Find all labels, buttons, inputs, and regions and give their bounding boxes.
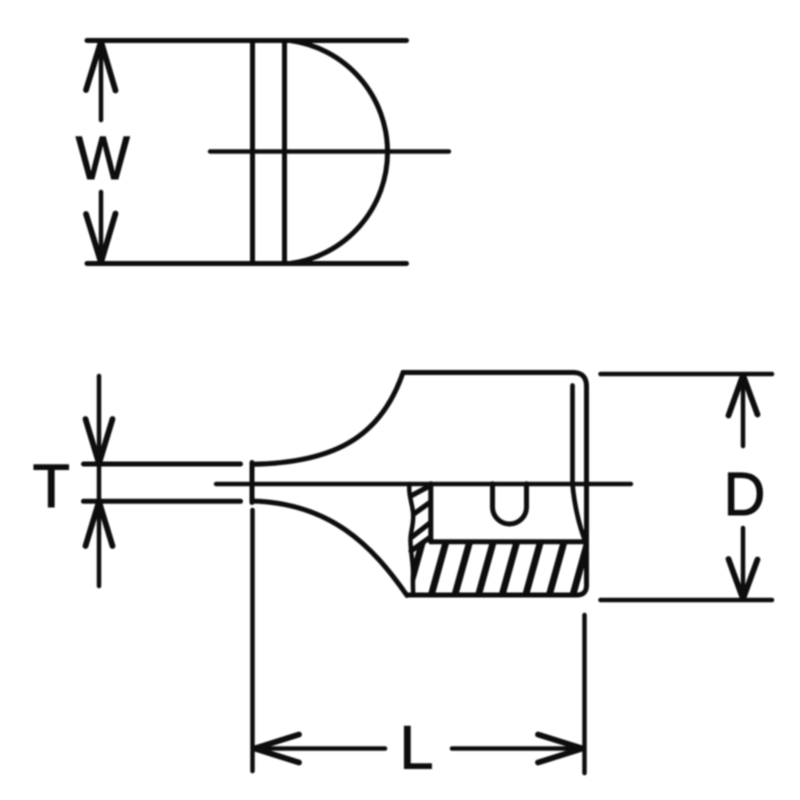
dimension W: upper shaft	[99, 43, 104, 120]
dimension D: lower shaft	[741, 528, 746, 598]
top view: blade face edge line right	[282, 41, 287, 264]
side view: horizontal centerline	[216, 482, 631, 486]
dimension L: right extension line	[582, 615, 587, 773]
dimension T: upper arrowhead	[86, 419, 113, 464]
top view: horizontal centerline	[210, 149, 449, 153]
side view: body top line	[403, 370, 573, 375]
side view: socket floor line	[431, 539, 586, 544]
side view: body left edge	[250, 463, 255, 503]
svg-text:D: D	[724, 460, 766, 528]
side view: bottom right rounded corner	[577, 586, 587, 596]
dimension D: lower arrowhead	[729, 559, 758, 599]
dimension T: middle shaft	[97, 464, 102, 501]
side view: body bottom line	[407, 593, 577, 598]
dimension D: bottom extension line	[601, 598, 773, 603]
svg-text:W: W	[76, 124, 130, 192]
side view: section hatching lower band	[383, 474, 630, 600]
svg-text:T: T	[33, 452, 70, 520]
side view: section hatching corner dash	[411, 537, 431, 551]
top view: blade face edge line left	[250, 41, 255, 264]
side view: top right rounded corner	[573, 373, 587, 387]
dimension L: left segment	[256, 746, 385, 751]
dimension L: left extension line	[250, 510, 255, 771]
dimension D: upper arrowhead	[729, 375, 758, 416]
dimension L: left arrowhead	[255, 735, 300, 763]
dimension T: lower shaft	[97, 503, 102, 586]
svg-text:L: L	[400, 713, 434, 781]
side view: inner right vertical line	[570, 386, 575, 485]
dimension W: lower shaft	[99, 192, 104, 261]
dimension D: upper shaft	[741, 376, 746, 446]
side view: socket opening chamfer curve	[573, 484, 586, 541]
top view: round body silhouette arc	[290, 41, 388, 264]
top view: upper extension line	[87, 38, 407, 43]
dimension T: upper shaft	[97, 376, 102, 462]
side view: socket recess left wall	[428, 484, 433, 542]
side view: ball detent notch	[493, 484, 527, 524]
dimension L: right arrowhead	[538, 735, 583, 763]
dimension W: upper arrowhead	[86, 42, 116, 91]
side view: section boundary wavy curve	[409, 484, 413, 595]
side view: blade bottom line	[84, 499, 241, 504]
dimension W: lower arrowhead	[86, 214, 116, 263]
side view: body right edge	[584, 387, 589, 586]
side view: blade top line	[84, 462, 241, 467]
dimension D: top extension line	[601, 372, 773, 377]
dimension L: right segment	[452, 746, 581, 751]
side view: top flare curve	[252, 373, 403, 465]
dimension T: lower arrowhead	[86, 502, 113, 547]
side view: section hatching left band dashes	[409, 486, 431, 538]
top view: lower extension line	[87, 261, 407, 266]
side view: bottom flare curve	[252, 501, 407, 596]
